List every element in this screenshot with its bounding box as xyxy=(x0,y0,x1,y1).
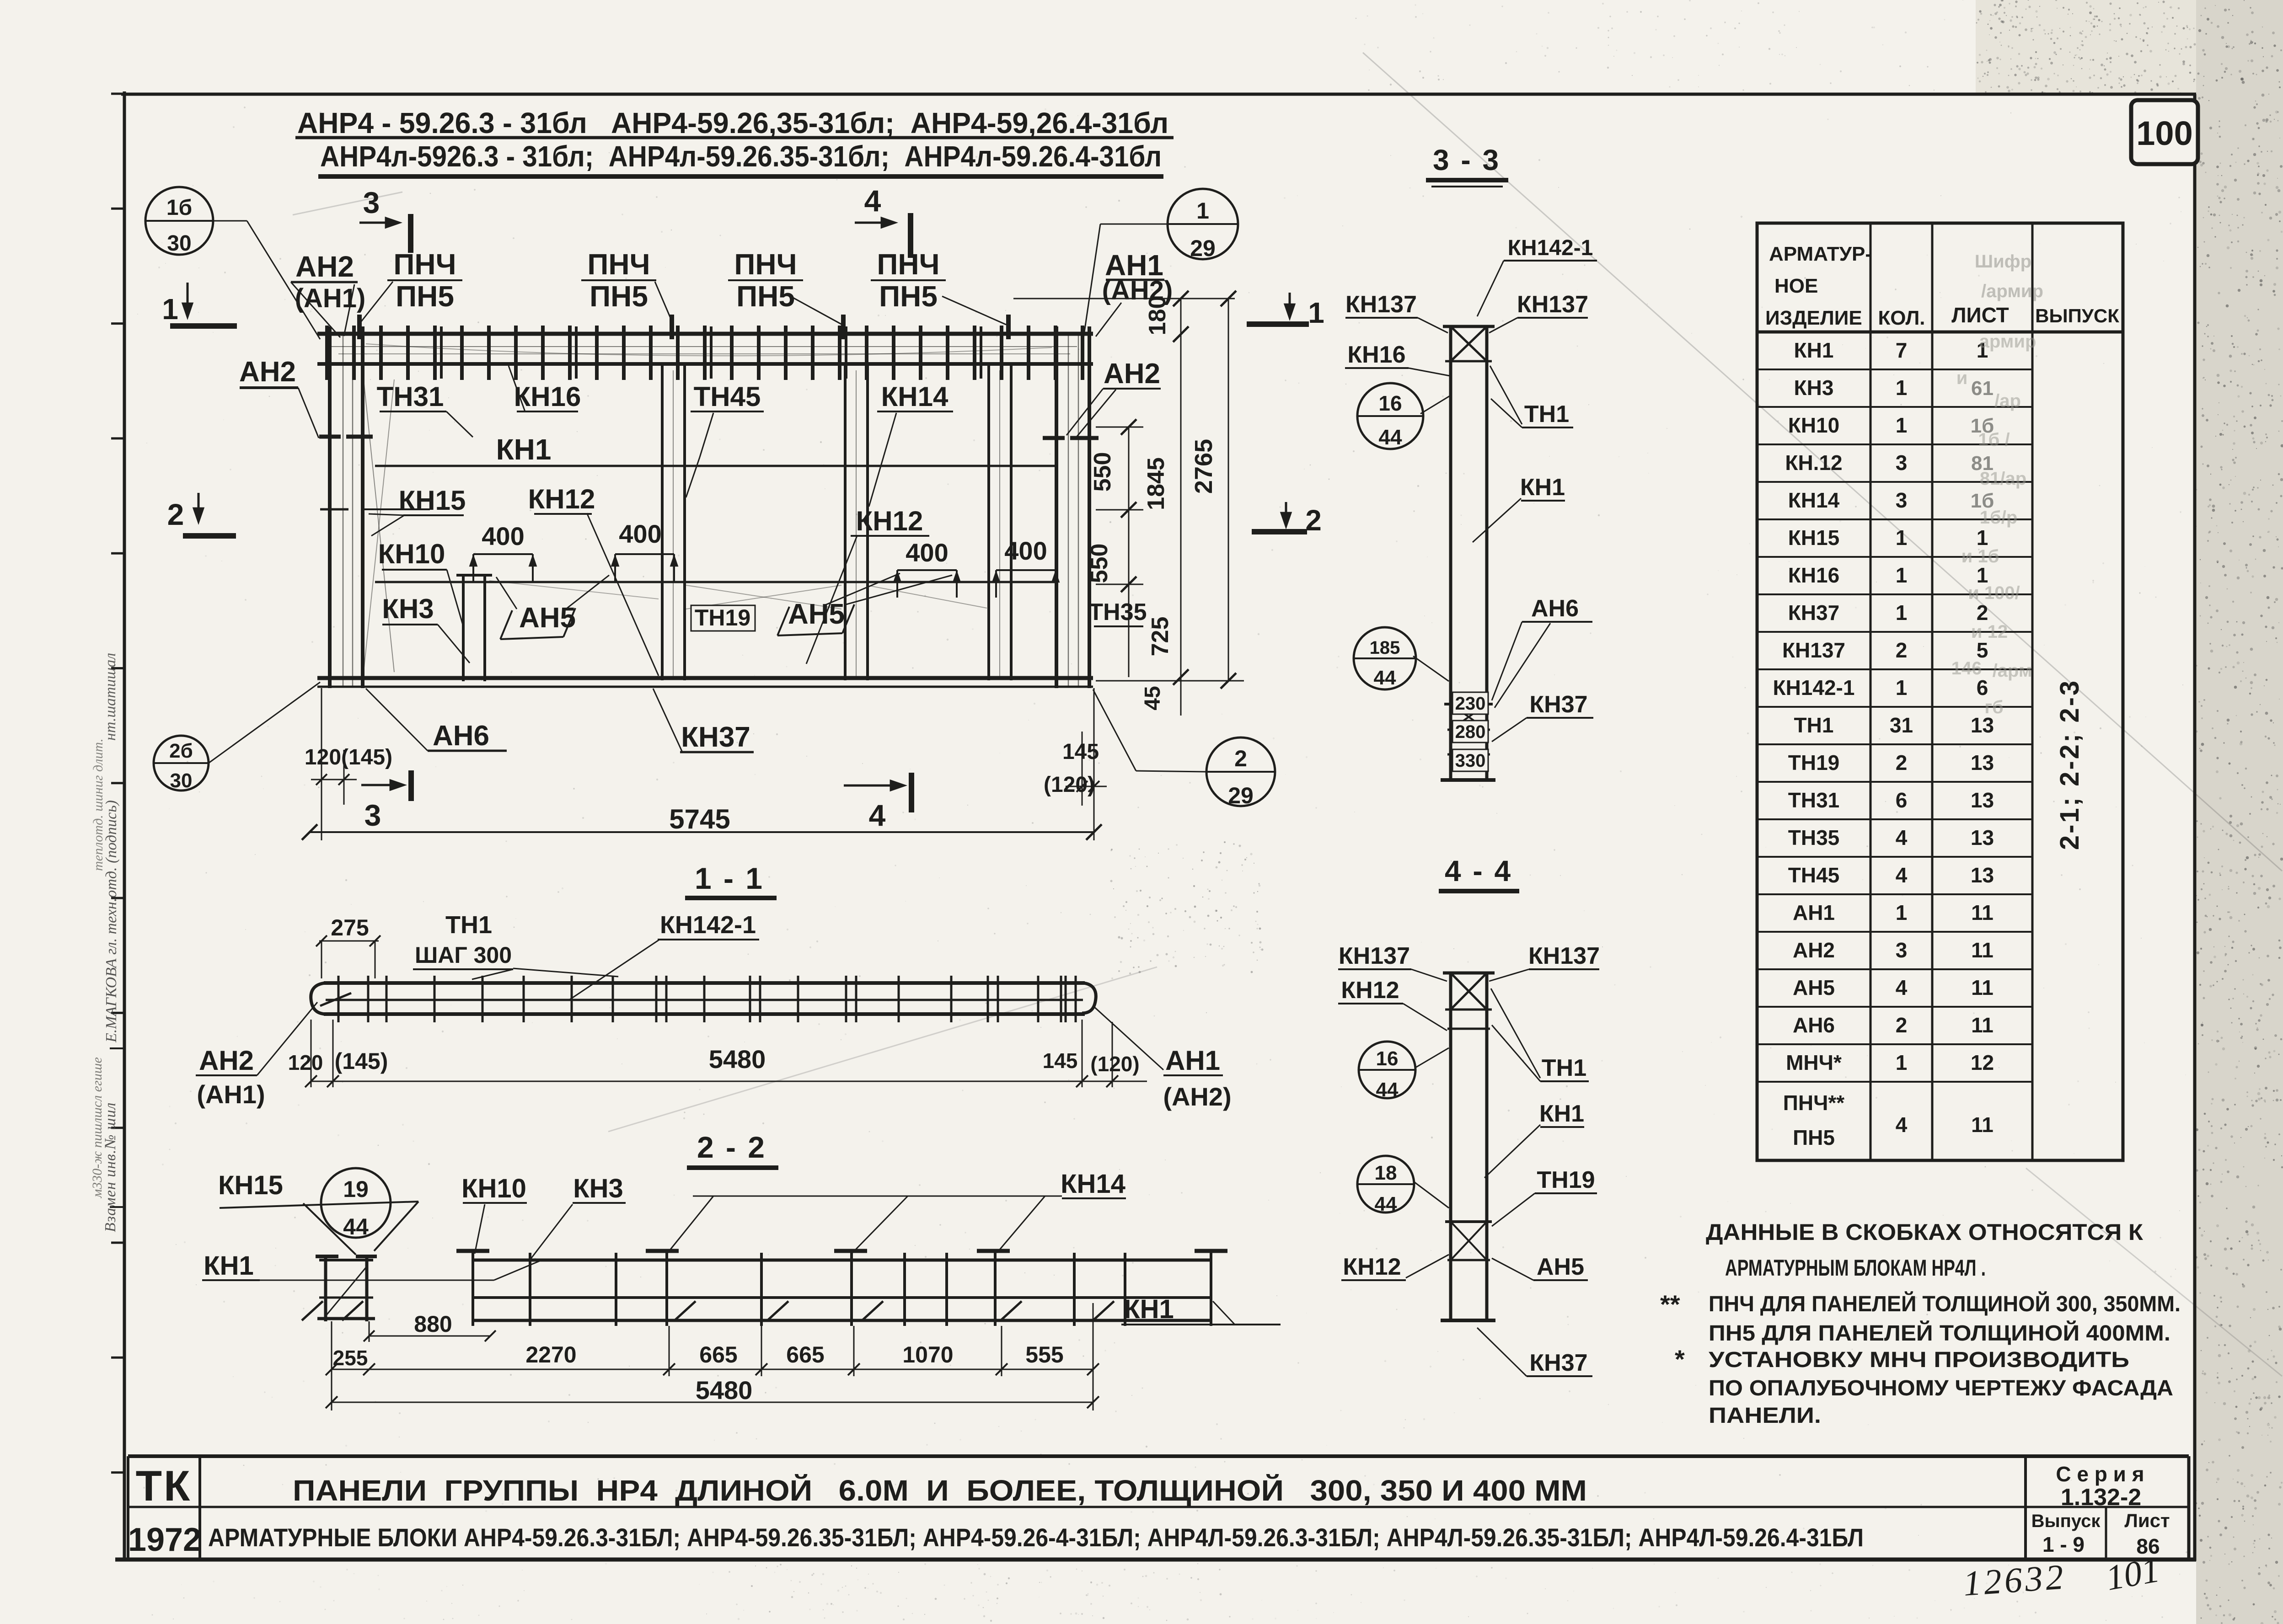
svg-text:11: 11 xyxy=(1971,976,1994,999)
svg-text:КН12: КН12 xyxy=(528,484,595,514)
svg-text:АН5: АН5 xyxy=(788,598,845,630)
svg-text:ВЫПУСК: ВЫПУСК xyxy=(2035,305,2119,326)
svg-text:(120): (120) xyxy=(1090,1052,1139,1076)
svg-text:4: 4 xyxy=(864,184,881,218)
svg-text:4 - 4: 4 - 4 xyxy=(1445,855,1512,887)
svg-text:2765: 2765 xyxy=(1190,439,1217,494)
svg-text:1845: 1845 xyxy=(1143,457,1169,510)
svg-text:/ар: /ар xyxy=(1994,391,2021,411)
svg-text:КН15: КН15 xyxy=(399,485,466,516)
svg-text:5480: 5480 xyxy=(709,1045,766,1074)
svg-text:16: 16 xyxy=(1376,1047,1399,1070)
svg-text:КН10: КН10 xyxy=(461,1174,526,1203)
svg-text:КН137: КН137 xyxy=(1517,291,1588,318)
svg-text:гб: гб xyxy=(1984,697,2003,717)
svg-text:400: 400 xyxy=(482,522,524,550)
svg-text:30: 30 xyxy=(170,769,193,792)
svg-text:61: 61 xyxy=(1971,377,1994,400)
svg-text:550: 550 xyxy=(1089,452,1116,492)
svg-text:1972: 1972 xyxy=(128,1522,201,1558)
svg-text:КН3: КН3 xyxy=(573,1174,623,1203)
svg-text:КН12: КН12 xyxy=(1341,977,1399,1004)
svg-text:ПНЧ ДЛЯ ПАНЕЛЕЙ ТОЛЩИНОЙ 300,: ПНЧ ДЛЯ ПАНЕЛЕЙ ТОЛЩИНОЙ 300, 350ММ. xyxy=(1709,1291,2181,1316)
svg-text:ПНЧ: ПНЧ xyxy=(587,248,650,281)
svg-text:КН14: КН14 xyxy=(1061,1169,1125,1199)
svg-text:1070: 1070 xyxy=(902,1342,953,1368)
svg-text:81/ар: 81/ар xyxy=(1980,469,2026,489)
svg-text:665: 665 xyxy=(786,1342,824,1368)
svg-text:7: 7 xyxy=(1896,338,1908,362)
svg-text:3: 3 xyxy=(364,798,381,832)
svg-text:ТН35: ТН35 xyxy=(1788,826,1839,849)
svg-text:44: 44 xyxy=(1378,425,1402,449)
svg-text:ТН1: ТН1 xyxy=(1794,713,1834,737)
svg-text:КН15: КН15 xyxy=(218,1170,283,1200)
svg-text:1: 1 xyxy=(1896,601,1908,625)
svg-text:КН137: КН137 xyxy=(1782,638,1845,662)
svg-text:5745: 5745 xyxy=(669,804,730,834)
svg-text:275: 275 xyxy=(331,915,369,940)
svg-text:ПНЧ: ПНЧ xyxy=(393,248,456,281)
svg-text:3: 3 xyxy=(1896,451,1908,475)
svg-text:230: 230 xyxy=(1455,694,1486,714)
svg-text:ТН45: ТН45 xyxy=(694,381,761,412)
svg-text:КН15: КН15 xyxy=(1788,526,1839,550)
svg-text:КН142-1: КН142-1 xyxy=(660,911,756,939)
svg-text:КН12: КН12 xyxy=(856,506,923,536)
svg-text:ТН19: ТН19 xyxy=(1788,751,1839,775)
svg-text:3 - 3: 3 - 3 xyxy=(1433,144,1501,176)
svg-text:30: 30 xyxy=(167,231,191,256)
svg-text:УСТАНОВКУ МНЧ ПРОИЗВОДИТЬ: УСТАНОВКУ МНЧ ПРОИЗВОДИТЬ xyxy=(1709,1348,2129,1372)
svg-text:АН6: АН6 xyxy=(1531,595,1579,622)
svg-text:255: 255 xyxy=(333,1346,368,1370)
svg-text:1: 1 xyxy=(1896,526,1908,550)
svg-text:КН16: КН16 xyxy=(1347,342,1405,368)
svg-text:13: 13 xyxy=(1971,751,1994,775)
svg-text:3: 3 xyxy=(363,186,380,219)
svg-text:880: 880 xyxy=(414,1311,452,1337)
svg-text:армир: армир xyxy=(1979,331,2036,352)
svg-text:ПАНЕЛИ ГРУППЫ НР4 ДЛИНОЙ: ПАНЕЛИ ГРУППЫ НР4 ДЛИНОЙ 6.0М И БОЛЕЕ, Т… xyxy=(293,1474,1587,1507)
svg-text:АНР4 - 59.26.3 - 31бл АНР4-5: АНР4 - 59.26.3 - 31бл АНР4-59.26,35-31бл… xyxy=(297,107,1168,139)
svg-text:6: 6 xyxy=(1977,676,1988,700)
svg-text:2б: 2б xyxy=(169,740,193,762)
svg-text:КН142-1: КН142-1 xyxy=(1773,676,1855,700)
svg-text:АН2: АН2 xyxy=(1104,358,1160,390)
svg-text:12: 12 xyxy=(1971,1051,1994,1074)
svg-text:1: 1 xyxy=(1196,198,1209,224)
svg-text:44: 44 xyxy=(343,1214,369,1239)
svg-text:*: * xyxy=(1675,1345,1685,1373)
svg-text:и 12: и 12 xyxy=(1971,622,2008,642)
svg-text:13: 13 xyxy=(1971,788,1994,812)
svg-text:и 100/: и 100/ xyxy=(1968,583,2020,603)
svg-text:1: 1 xyxy=(1896,1051,1908,1074)
svg-text:665: 665 xyxy=(699,1342,737,1368)
svg-text:(АН2): (АН2) xyxy=(1163,1082,1231,1111)
svg-text:4: 4 xyxy=(869,798,886,832)
svg-text:КН137: КН137 xyxy=(1345,291,1417,318)
svg-text:1: 1 xyxy=(1308,296,1324,329)
svg-text:44: 44 xyxy=(1375,1193,1397,1215)
svg-text:ИЗДЕЛИЕ: ИЗДЕЛИЕ xyxy=(1765,307,1862,329)
svg-text:КН10: КН10 xyxy=(378,539,445,569)
svg-text:ПН5: ПН5 xyxy=(879,280,938,313)
svg-text:185: 185 xyxy=(1370,638,1400,658)
svg-text:3: 3 xyxy=(1896,488,1908,512)
svg-text:13: 13 xyxy=(1971,826,1994,849)
svg-text:725: 725 xyxy=(1147,617,1174,657)
svg-text:2 - 2: 2 - 2 xyxy=(697,1130,766,1164)
svg-text:280: 280 xyxy=(1455,722,1486,742)
svg-text:180: 180 xyxy=(1144,296,1171,336)
svg-text:145: 145 xyxy=(1043,1049,1078,1073)
svg-text:и 1б: и 1б xyxy=(1961,546,1999,566)
svg-text:С е р и я: С е р и я xyxy=(2056,1462,2144,1486)
svg-text:КОЛ.: КОЛ. xyxy=(1878,307,1925,329)
svg-text:13: 13 xyxy=(1971,863,1994,887)
svg-text:АН6: АН6 xyxy=(433,720,489,752)
svg-text:КН3: КН3 xyxy=(1794,376,1834,400)
svg-text:ДАННЫЕ В СКОБКАХ ОТНОСЯТСЯ К: ДАННЫЕ В СКОБКАХ ОТНОСЯТСЯ К xyxy=(1706,1219,2144,1245)
svg-text:Лист: Лист xyxy=(2124,1510,2170,1531)
svg-text:КН37: КН37 xyxy=(681,721,750,753)
svg-text:1 - 9: 1 - 9 xyxy=(2042,1533,2085,1556)
svg-text:ПН5 ДЛЯ ПАНЕЛЕЙ ТОЛЩИНОЙ 400ММ: ПН5 ДЛЯ ПАНЕЛЕЙ ТОЛЩИНОЙ 400ММ. xyxy=(1709,1320,2170,1346)
svg-text:ПН5: ПН5 xyxy=(736,280,795,313)
svg-text:3: 3 xyxy=(1896,938,1908,962)
svg-text:2: 2 xyxy=(1896,1013,1908,1037)
svg-text:теплотд. шиниг длит.: теплотд. шиниг длит. xyxy=(91,738,106,871)
svg-text:КН3: КН3 xyxy=(382,593,434,624)
svg-text:1: 1 xyxy=(162,293,178,326)
svg-text:АН2: АН2 xyxy=(239,356,296,388)
svg-text:44: 44 xyxy=(1374,667,1396,689)
svg-text:12632: 12632 xyxy=(1962,1556,2068,1603)
svg-text:2: 2 xyxy=(1234,746,1247,771)
svg-text:11: 11 xyxy=(1971,901,1994,924)
svg-text:АРМАТУРНЫМ БЛОКАМ НР4Л .: АРМАТУРНЫМ БЛОКАМ НР4Л . xyxy=(1725,1255,1986,1281)
svg-text:КН142-1: КН142-1 xyxy=(1508,236,1593,260)
svg-text:ЛИСТ: ЛИСТ xyxy=(1951,303,2009,327)
svg-text:АРМАТУРНЫЕ БЛОКИ АНР4-59.26.3-: АРМАТУРНЫЕ БЛОКИ АНР4-59.26.3-31БЛ; АНР4… xyxy=(208,1523,1864,1552)
svg-text:Выпуск: Выпуск xyxy=(2031,1511,2101,1531)
svg-text:400: 400 xyxy=(619,519,661,548)
svg-text:2: 2 xyxy=(1977,601,1988,625)
svg-text:АН5: АН5 xyxy=(1537,1254,1584,1280)
svg-text:400: 400 xyxy=(906,538,948,567)
svg-text:/арм: /арм xyxy=(1993,661,2032,681)
svg-text:АРМАТУР-: АРМАТУР- xyxy=(1769,243,1872,265)
svg-text:ТН1: ТН1 xyxy=(1542,1055,1586,1081)
svg-text:330: 330 xyxy=(1455,751,1486,771)
svg-text:400: 400 xyxy=(1004,536,1047,565)
svg-text:1: 1 xyxy=(1896,901,1908,924)
svg-text:29: 29 xyxy=(1228,783,1254,808)
svg-text:/армир: /армир xyxy=(1981,281,2043,301)
svg-text:11: 11 xyxy=(1971,938,1994,962)
svg-text:11: 11 xyxy=(1971,1013,1994,1037)
svg-text:КН1: КН1 xyxy=(1124,1294,1174,1324)
svg-text:АН1: АН1 xyxy=(1793,901,1835,924)
svg-text:2-1; 2-2; 2-3: 2-1; 2-2; 2-3 xyxy=(2055,679,2085,850)
svg-text:АН2: АН2 xyxy=(295,250,354,283)
svg-text:5480: 5480 xyxy=(696,1376,753,1405)
svg-text:м330-ж пишлшсл егише: м330-ж пишлшсл егише xyxy=(90,1057,105,1198)
svg-text:29: 29 xyxy=(1190,235,1216,261)
svg-text:КН37: КН37 xyxy=(1529,1350,1587,1376)
svg-text:6: 6 xyxy=(1896,788,1908,812)
svg-text:КН1: КН1 xyxy=(204,1251,254,1281)
svg-text:ТН31: ТН31 xyxy=(377,381,444,412)
svg-text:19: 19 xyxy=(343,1176,369,1202)
svg-text:КН37: КН37 xyxy=(1529,691,1587,718)
svg-text:ПАНЕЛИ.: ПАНЕЛИ. xyxy=(1709,1404,1821,1428)
svg-text:4: 4 xyxy=(1896,863,1908,887)
svg-text:ПНЧ**: ПНЧ** xyxy=(1783,1091,1845,1115)
svg-text:1: 1 xyxy=(1896,376,1908,400)
svg-text:45: 45 xyxy=(1141,686,1165,710)
svg-text:(120): (120) xyxy=(1044,773,1095,797)
svg-text:КН14: КН14 xyxy=(1788,488,1840,512)
svg-text:1 - 1: 1 - 1 xyxy=(695,861,764,895)
svg-text:ПНЧ: ПНЧ xyxy=(734,248,797,281)
svg-text:1б/р: 1б/р xyxy=(1980,507,2018,528)
svg-text:1.132-2: 1.132-2 xyxy=(2061,1484,2141,1511)
svg-text:550: 550 xyxy=(1086,544,1113,583)
svg-text:555: 555 xyxy=(1025,1342,1063,1368)
svg-text:и: и xyxy=(1956,368,1968,388)
svg-text:ШАГ 300: ШАГ 300 xyxy=(415,942,512,968)
svg-text:ПО ОПАЛУБОЧНОМУ ЧЕРТЕЖУ ФАСАДА: ПО ОПАЛУБОЧНОМУ ЧЕРТЕЖУ ФАСАДА xyxy=(1709,1376,2173,1400)
svg-text:1: 1 xyxy=(1896,563,1908,587)
svg-text:КН12: КН12 xyxy=(1343,1254,1401,1280)
svg-text:НОЕ: НОЕ xyxy=(1774,275,1818,297)
svg-text:1: 1 xyxy=(1896,676,1908,700)
svg-text:(145): (145) xyxy=(335,1048,388,1074)
svg-text:1б: 1б xyxy=(166,196,192,220)
svg-text:ТН19: ТН19 xyxy=(1537,1167,1595,1193)
svg-text:АН2: АН2 xyxy=(1793,938,1835,962)
svg-text:КН137: КН137 xyxy=(1528,943,1600,969)
svg-text:ТН19: ТН19 xyxy=(695,605,750,630)
svg-text:АН2: АН2 xyxy=(199,1045,254,1076)
svg-text:Шифр: Шифр xyxy=(1975,251,2031,272)
svg-text:2: 2 xyxy=(1896,638,1908,662)
svg-text:**: ** xyxy=(1660,1290,1680,1319)
svg-text:ПН5: ПН5 xyxy=(590,280,648,313)
svg-text:КН.12: КН.12 xyxy=(1785,451,1842,475)
svg-text:КН1: КН1 xyxy=(1794,338,1834,362)
svg-text:2: 2 xyxy=(167,497,184,531)
svg-text:КН16: КН16 xyxy=(1788,563,1839,587)
svg-text:нт.шатишал: нт.шатишал xyxy=(102,653,119,741)
svg-text:ПН5: ПН5 xyxy=(396,280,454,313)
svg-text:4: 4 xyxy=(1896,976,1908,999)
svg-text:120: 120 xyxy=(288,1051,323,1074)
svg-text:ПН5: ПН5 xyxy=(1793,1126,1835,1149)
svg-text:КН1: КН1 xyxy=(1520,474,1565,501)
svg-text:100: 100 xyxy=(2136,114,2192,152)
svg-text:2270: 2270 xyxy=(525,1342,576,1368)
svg-text:КН37: КН37 xyxy=(1788,601,1839,625)
svg-text:АНР4л-5926.3 - 31бл; АНР4л-59: АНР4л-5926.3 - 31бл; АНР4л-59.26.35-31бл… xyxy=(320,140,1162,173)
svg-text:АН6: АН6 xyxy=(1793,1013,1835,1037)
svg-text:МНЧ*: МНЧ* xyxy=(1786,1051,1842,1074)
svg-text:АН1: АН1 xyxy=(1165,1045,1220,1076)
svg-text:КН14: КН14 xyxy=(881,381,949,412)
svg-text:18: 18 xyxy=(1375,1162,1397,1184)
svg-text:ТН45: ТН45 xyxy=(1788,863,1839,887)
svg-text:120(145): 120(145) xyxy=(305,745,392,769)
svg-text:31: 31 xyxy=(1890,713,1913,737)
svg-text:1б /: 1б / xyxy=(1978,430,2010,450)
svg-text:КН1: КН1 xyxy=(496,433,552,466)
svg-text:44: 44 xyxy=(1376,1079,1399,1101)
svg-text:146: 146 xyxy=(1951,658,1982,678)
svg-text:ТН31: ТН31 xyxy=(1788,788,1839,812)
svg-text:16: 16 xyxy=(1378,391,1402,415)
svg-text:2: 2 xyxy=(1305,504,1322,537)
svg-text:11: 11 xyxy=(1971,1113,1994,1137)
svg-text:4: 4 xyxy=(1896,826,1908,849)
svg-text:КН10: КН10 xyxy=(1788,413,1839,437)
svg-text:ТН1: ТН1 xyxy=(445,911,492,939)
svg-text:ТК: ТК xyxy=(136,1462,192,1510)
svg-text:АН5: АН5 xyxy=(1793,976,1835,999)
svg-text:4: 4 xyxy=(1896,1113,1908,1137)
svg-text:ТН1: ТН1 xyxy=(1524,401,1569,427)
svg-text:КН137: КН137 xyxy=(1339,943,1410,969)
svg-text:ТН35: ТН35 xyxy=(1088,599,1147,625)
svg-text:2: 2 xyxy=(1896,751,1908,775)
svg-text:КН1: КН1 xyxy=(1539,1100,1584,1127)
svg-text:(АН1): (АН1) xyxy=(197,1080,265,1109)
svg-text:1: 1 xyxy=(1896,413,1908,437)
